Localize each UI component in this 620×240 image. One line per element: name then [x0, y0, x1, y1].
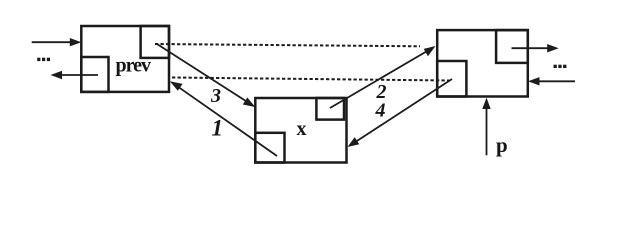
svg-text:p: p [496, 133, 508, 157]
arrow 2 x.next to after [330, 49, 432, 109]
arrow 1 x.prev to prev [174, 84, 277, 156]
svg-text:1: 1 [212, 116, 224, 141]
after next-pointer field [496, 30, 528, 63]
prev next-pointer field [141, 26, 169, 58]
arrow 3 prev.next to x [157, 44, 251, 105]
dashed old pointer after.prev to prev [172, 78, 449, 81]
node box x [255, 98, 346, 163]
wire incoming arrow into after from right [533, 80, 575, 82]
node box after (pointed by p) [437, 30, 528, 96]
node box prev [81, 26, 169, 92]
after back-pointer field [437, 61, 466, 97]
wire incoming arrow into prev [32, 41, 77, 43]
ellipsis left [37, 58, 50, 61]
ellipsis right [554, 65, 567, 68]
x back-pointer field [255, 133, 284, 163]
x next-pointer field [316, 98, 344, 120]
svg-text:x: x [297, 118, 307, 140]
arrow 4 after.prev to x [352, 79, 453, 145]
dashed old pointer prev to after [155, 44, 420, 46]
svg-text:prev: prev [116, 55, 152, 77]
pointer p arrow [486, 103, 488, 156]
wire outgoing arrow from prev back field [55, 74, 98, 76]
svg-text:4: 4 [375, 100, 386, 122]
svg-text:3: 3 [210, 85, 221, 107]
prev back-pointer field [81, 57, 108, 92]
wire outgoing arrow from after next field [512, 47, 555, 49]
